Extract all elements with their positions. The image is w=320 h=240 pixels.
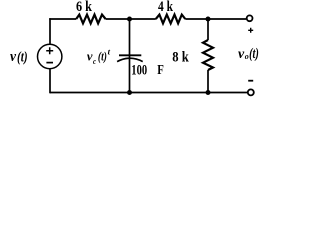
svg-text:(t): (t) bbox=[249, 46, 259, 62]
wire left branch bottom (source to bottom rail) bbox=[49, 69, 51, 93]
label - (output polarity) bbox=[248, 80, 253, 82]
svg-text:v: v bbox=[10, 49, 17, 65]
wire 4k to top terminal through 8k node bbox=[185, 18, 246, 20]
svg-text:o: o bbox=[245, 52, 249, 61]
svg-text:v: v bbox=[87, 48, 93, 63]
svg-text:8 k: 8 k bbox=[172, 49, 189, 66]
svg-text:4 k: 4 k bbox=[158, 0, 174, 15]
wire left branch top (corner to source) bbox=[49, 18, 51, 44]
wire 8k branch bottom stub bbox=[207, 70, 209, 93]
wire 8k branch top stub bbox=[207, 19, 209, 40]
svg-text:(t): (t) bbox=[98, 48, 107, 63]
capacitor C1 top plate bbox=[119, 54, 141, 56]
svg-text:(t): (t) bbox=[17, 49, 28, 65]
label + (output polarity) bbox=[248, 28, 253, 33]
resistor R1 6k bbox=[76, 15, 105, 24]
node 8k-bottom junction bbox=[206, 90, 211, 95]
svg-text:c: c bbox=[93, 56, 96, 66]
wire top-left horizontal (source to 6k) bbox=[49, 18, 76, 20]
wire capacitor branch vertical bbox=[129, 19, 131, 93]
resistor R2 4k bbox=[156, 15, 186, 24]
terminal top (output +) bbox=[247, 15, 253, 21]
voltage source V1 bbox=[38, 44, 62, 68]
terminal bottom (output -) bbox=[248, 89, 254, 95]
resistor R3 8k (vertical) bbox=[203, 40, 213, 70]
node 8k-top junction bbox=[206, 17, 211, 22]
wire 6k to 4k through capacitor node bbox=[106, 18, 156, 20]
capacitor C1 curved bottom plate bbox=[117, 58, 143, 61]
svg-text:100: 100 bbox=[131, 62, 147, 79]
wire bottom rail bbox=[50, 92, 247, 94]
node capacitor-bottom junction bbox=[127, 90, 132, 95]
svg-text:6 k: 6 k bbox=[76, 0, 93, 15]
node capacitor-top junction bbox=[127, 17, 132, 22]
svg-text:F: F bbox=[157, 63, 164, 78]
